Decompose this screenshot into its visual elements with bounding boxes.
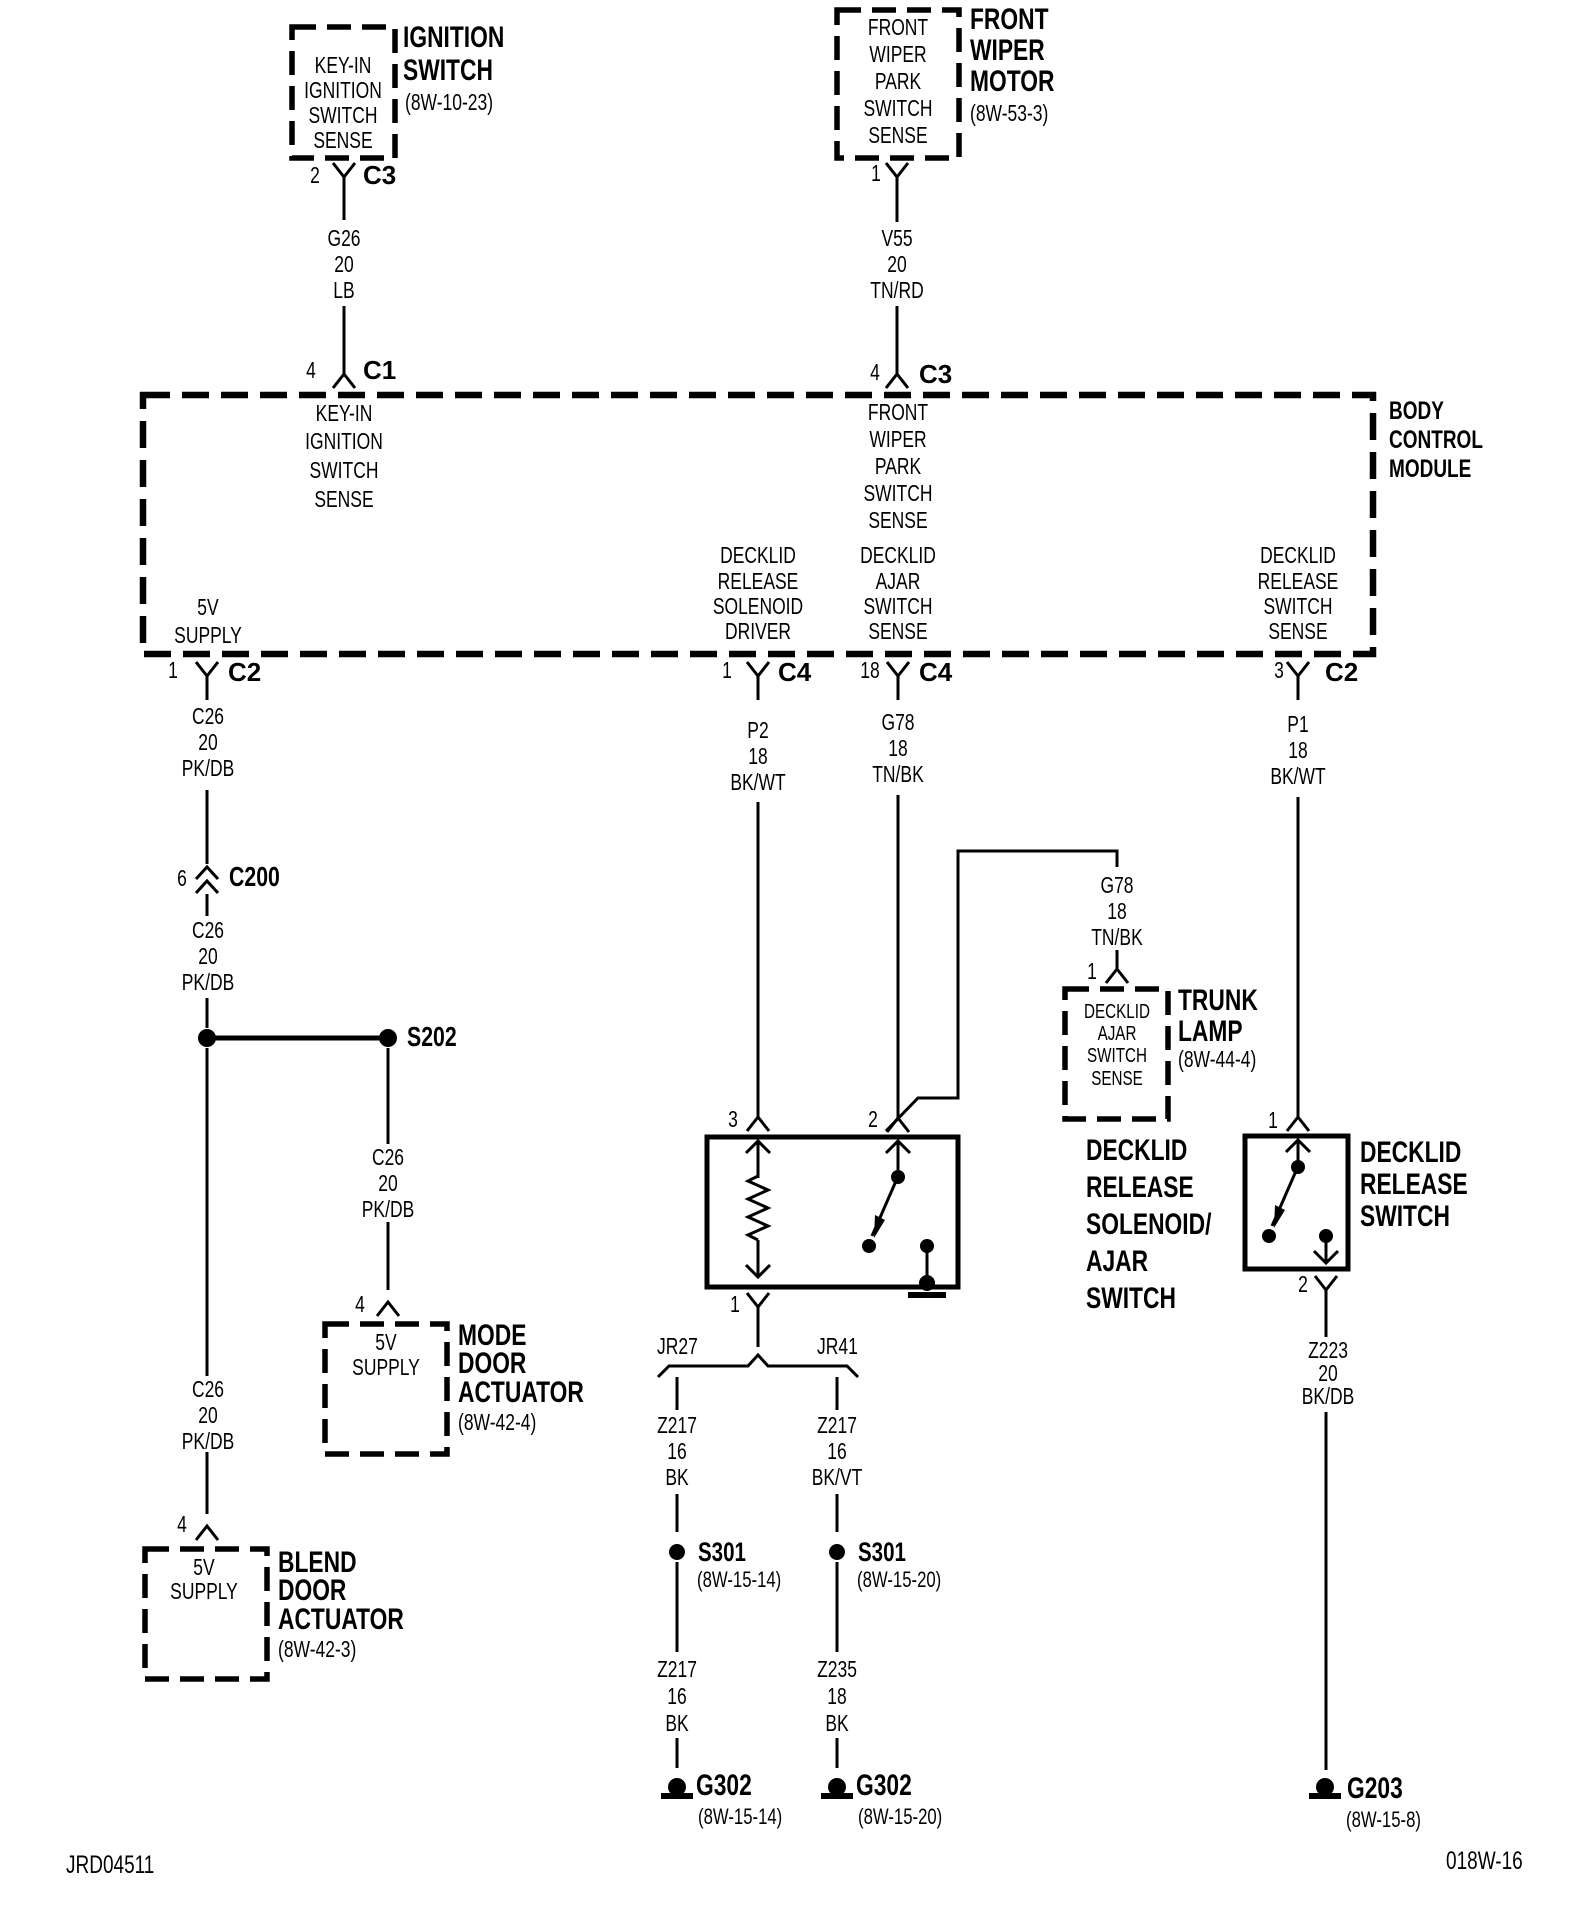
wire Z217 right xyxy=(836,1494,839,1532)
splice S301 right label xyxy=(858,1539,906,1566)
wire C26 label a xyxy=(124,703,291,781)
trunk lamp ref xyxy=(1178,1046,1256,1072)
BCM decklid release solenoid driver label xyxy=(674,543,841,645)
front wiper motor box xyxy=(837,10,959,158)
ajar switch ground wire xyxy=(926,1246,929,1281)
pin 1 release switch xyxy=(1189,1109,1356,1132)
connector C1 label xyxy=(363,357,396,383)
connector C3 bcm label xyxy=(919,361,952,387)
BCM key-in sense label xyxy=(260,399,427,514)
ajar switch common dot xyxy=(891,1170,905,1184)
ground G302 left label xyxy=(696,1771,752,1801)
ajar switch blade xyxy=(872,1181,896,1236)
decklid release switch box xyxy=(1245,1136,1348,1269)
wire C26 mode lower xyxy=(387,1222,390,1290)
wire V55 xyxy=(896,306,899,374)
pin 4 blend xyxy=(98,1513,265,1536)
connector solenoid pin1 symbol xyxy=(747,1293,769,1307)
pin 2 release switch xyxy=(1219,1273,1386,1296)
wire C26 label d xyxy=(124,1376,291,1454)
ground G302 right ref xyxy=(858,1806,942,1828)
wire Z217 label b xyxy=(753,1412,920,1490)
wire P1 xyxy=(1297,797,1300,1117)
connector C1 symbol xyxy=(333,374,355,388)
wire branch to trunk lamp xyxy=(886,851,1117,1131)
wire Z235 label xyxy=(753,1656,920,1737)
wire C26 S202 branch xyxy=(387,1048,390,1144)
mode door actuator box xyxy=(325,1324,447,1454)
connector C3 bcm symbol xyxy=(886,374,908,388)
wire Z223 xyxy=(1325,1412,1328,1770)
mode door actuator ref xyxy=(458,1409,536,1435)
pin 18 C4 xyxy=(786,659,953,682)
BCM 5v supply label xyxy=(124,593,291,649)
resistor top arrow xyxy=(746,1141,770,1153)
connector C3 ignition label xyxy=(363,162,396,188)
pin 4 C1 xyxy=(227,359,394,382)
pin 1 wiper xyxy=(792,162,959,185)
wire G78 trunk label xyxy=(1033,872,1200,950)
trunk lamp box label xyxy=(1033,1001,1200,1091)
front wiper motor ref xyxy=(970,100,1048,126)
wire JR41 stub xyxy=(836,1377,839,1410)
pin 1 C2 xyxy=(89,659,256,682)
connector C4 pin1 symbol xyxy=(747,662,769,676)
connector solenoid pin2 symbol xyxy=(887,1118,909,1132)
connector trunk pin1 symbol xyxy=(1106,969,1128,983)
connector C4 pin1 label xyxy=(778,659,811,685)
wire Z217 left lower xyxy=(676,1562,679,1652)
trunk lamp box xyxy=(1065,989,1168,1119)
connector blend pin4 symbol xyxy=(196,1526,218,1540)
release switch output wire xyxy=(1325,1236,1328,1263)
connector C200 label xyxy=(229,863,280,891)
wire JR27 stub xyxy=(676,1377,679,1410)
wire C26 b xyxy=(206,998,209,1028)
connector C200 symbol xyxy=(196,867,218,879)
wire P2 xyxy=(757,802,760,1117)
wire G26 20 LB label xyxy=(260,225,427,303)
connector C4 pin18 symbol xyxy=(887,662,909,676)
splice S301 right ref xyxy=(857,1569,941,1591)
ajar switch top arrow xyxy=(886,1141,910,1153)
mode door 5v supply label xyxy=(302,1330,469,1380)
BCM decklid ajar switch sense label xyxy=(814,543,981,645)
pin 4 C3 bcm xyxy=(791,361,958,384)
splice S301 left ref xyxy=(697,1569,781,1591)
blend door 5v supply label xyxy=(120,1555,287,1603)
release switch blade xyxy=(1272,1171,1296,1226)
decklid release solenoid box xyxy=(707,1137,958,1287)
release switch top arrow xyxy=(1286,1140,1310,1152)
ignition switch box xyxy=(292,27,395,158)
wire P2 label xyxy=(674,717,841,795)
pin 6 C200 xyxy=(98,867,265,890)
splice brace JR27 JR41 xyxy=(658,1355,858,1377)
front wiper motor title xyxy=(970,4,1054,97)
connector mode pin4 symbol xyxy=(377,1302,399,1316)
blend door actuator title xyxy=(278,1549,404,1635)
wire V55 20 TN/RD label xyxy=(813,225,980,303)
ground G203 label xyxy=(1347,1774,1403,1804)
wire P1 label xyxy=(1214,711,1381,789)
wire C26 label b xyxy=(124,917,291,995)
pin 3 solenoid xyxy=(649,1108,816,1131)
body control module box xyxy=(143,395,1373,654)
decklid release solenoid title xyxy=(1086,1132,1211,1317)
wire Z217 label a xyxy=(593,1412,760,1490)
wire C26 blend lower xyxy=(206,1452,209,1514)
ajar switch blade arrow xyxy=(874,1215,885,1238)
ignition switch box label xyxy=(259,53,426,153)
ground G302 left symbol xyxy=(668,1778,686,1796)
connector C3 ignition symbol xyxy=(333,163,355,177)
wire G78 xyxy=(897,795,900,1118)
connector C2 pin3 label xyxy=(1325,659,1358,685)
wire C26 label c xyxy=(304,1144,471,1222)
pin 2 ignition C3 xyxy=(231,164,398,187)
ignition switch ref xyxy=(405,89,493,115)
pin 1 C4 xyxy=(643,659,810,682)
ground G203 symbol xyxy=(1316,1778,1334,1796)
pin 1 trunk lamp xyxy=(1008,960,1175,983)
BCM decklid release switch sense label xyxy=(1214,543,1381,645)
blend door actuator ref xyxy=(278,1636,356,1662)
splice S202 dot xyxy=(379,1029,397,1047)
pin 4 mode xyxy=(276,1293,443,1316)
resistor element xyxy=(748,1176,768,1240)
connector C3 wiper symbol xyxy=(886,163,908,177)
pin 1 solenoid xyxy=(651,1293,818,1316)
wire Z223 label xyxy=(1244,1339,1411,1408)
wire Z217 left stub xyxy=(676,1738,679,1768)
decklid release switch title xyxy=(1360,1137,1468,1233)
ajar switch case ground bump xyxy=(919,1275,935,1291)
ajar switch ground contact dot xyxy=(920,1239,934,1253)
front wiper box label xyxy=(814,14,981,149)
wire Z235 right stub xyxy=(836,1738,839,1768)
connector switch pin2 symbol xyxy=(1315,1276,1337,1290)
pin 2 solenoid xyxy=(789,1108,956,1131)
ground G302 left ref xyxy=(698,1806,782,1828)
splice S301 right dot xyxy=(829,1544,845,1560)
splice S301 left dot xyxy=(669,1544,685,1560)
release switch common dot xyxy=(1291,1160,1305,1174)
ground G302 right label xyxy=(856,1771,912,1801)
blend door actuator box xyxy=(145,1549,267,1679)
connector C2 pin3 symbol xyxy=(1287,662,1309,676)
wire splice horizontal xyxy=(214,1036,380,1041)
ajar switch ground bar xyxy=(908,1292,946,1298)
splice S301 left label xyxy=(698,1539,746,1566)
trunk lamp title xyxy=(1178,985,1258,1047)
mode door actuator title xyxy=(458,1322,584,1408)
wire C26 a xyxy=(206,790,209,864)
BCM wiper park sense label xyxy=(814,399,981,534)
body control module title xyxy=(1389,397,1483,483)
release switch blade arrow xyxy=(1274,1205,1285,1228)
wire Z217 left xyxy=(676,1494,679,1532)
wire Z217 label c xyxy=(593,1656,760,1737)
connector C4 pin18 label xyxy=(919,659,952,685)
node JR27 label xyxy=(657,1333,698,1359)
node JR41 label xyxy=(817,1333,858,1359)
connector C2 pin1 symbol xyxy=(196,662,218,676)
connector switch pin1 symbol xyxy=(1287,1117,1309,1131)
wire Z235 right lower xyxy=(836,1562,839,1652)
wire C26 to blend xyxy=(206,1048,209,1376)
wire G78 trunk stem xyxy=(1116,950,1119,969)
ignition switch title xyxy=(403,22,504,87)
sheet number JRD04511 xyxy=(66,1853,154,1878)
connector C2 pin1 label xyxy=(228,659,261,685)
ajar switch contact dot xyxy=(862,1239,876,1253)
sheet number 018W-16 xyxy=(1446,1849,1523,1874)
connector solenoid pin3 symbol xyxy=(747,1117,769,1131)
wire G26 xyxy=(343,306,346,374)
junction dot left xyxy=(198,1029,216,1047)
resistor bottom arrow xyxy=(757,1240,760,1277)
ground G203 ref xyxy=(1346,1809,1421,1831)
splice S202 label xyxy=(407,1023,457,1051)
ground G302 right symbol xyxy=(828,1778,846,1796)
release switch output dot xyxy=(1319,1229,1333,1243)
release switch bottom arrow xyxy=(1314,1251,1338,1263)
release switch contact dot xyxy=(1262,1229,1276,1243)
pin 3 C2 xyxy=(1195,659,1362,682)
wire G78 label xyxy=(814,709,981,787)
